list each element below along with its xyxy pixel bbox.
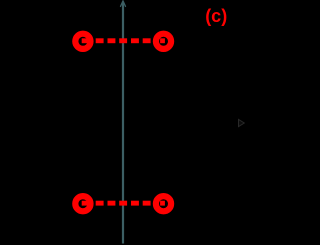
dashed bond top (82, 38, 165, 43)
atom marker top-right (156, 34, 171, 49)
z-axis shaft (122, 2, 124, 244)
dash dot inside top-right marker (160, 38, 165, 43)
dash tab inside bottom-left marker (82, 201, 88, 206)
z-axis arrowhead (121, 1, 126, 7)
svg-text:(c): (c) (205, 6, 227, 26)
atom marker bottom-left (75, 196, 90, 211)
x-axis arrowhead (faint, right edge) (239, 119, 245, 126)
atom marker top-left (75, 34, 90, 49)
dashed bond bottom (82, 201, 165, 206)
dash tab inside top-left marker (82, 38, 88, 43)
dash dot inside bottom-right marker (160, 201, 165, 206)
atom marker bottom-right (156, 196, 171, 211)
